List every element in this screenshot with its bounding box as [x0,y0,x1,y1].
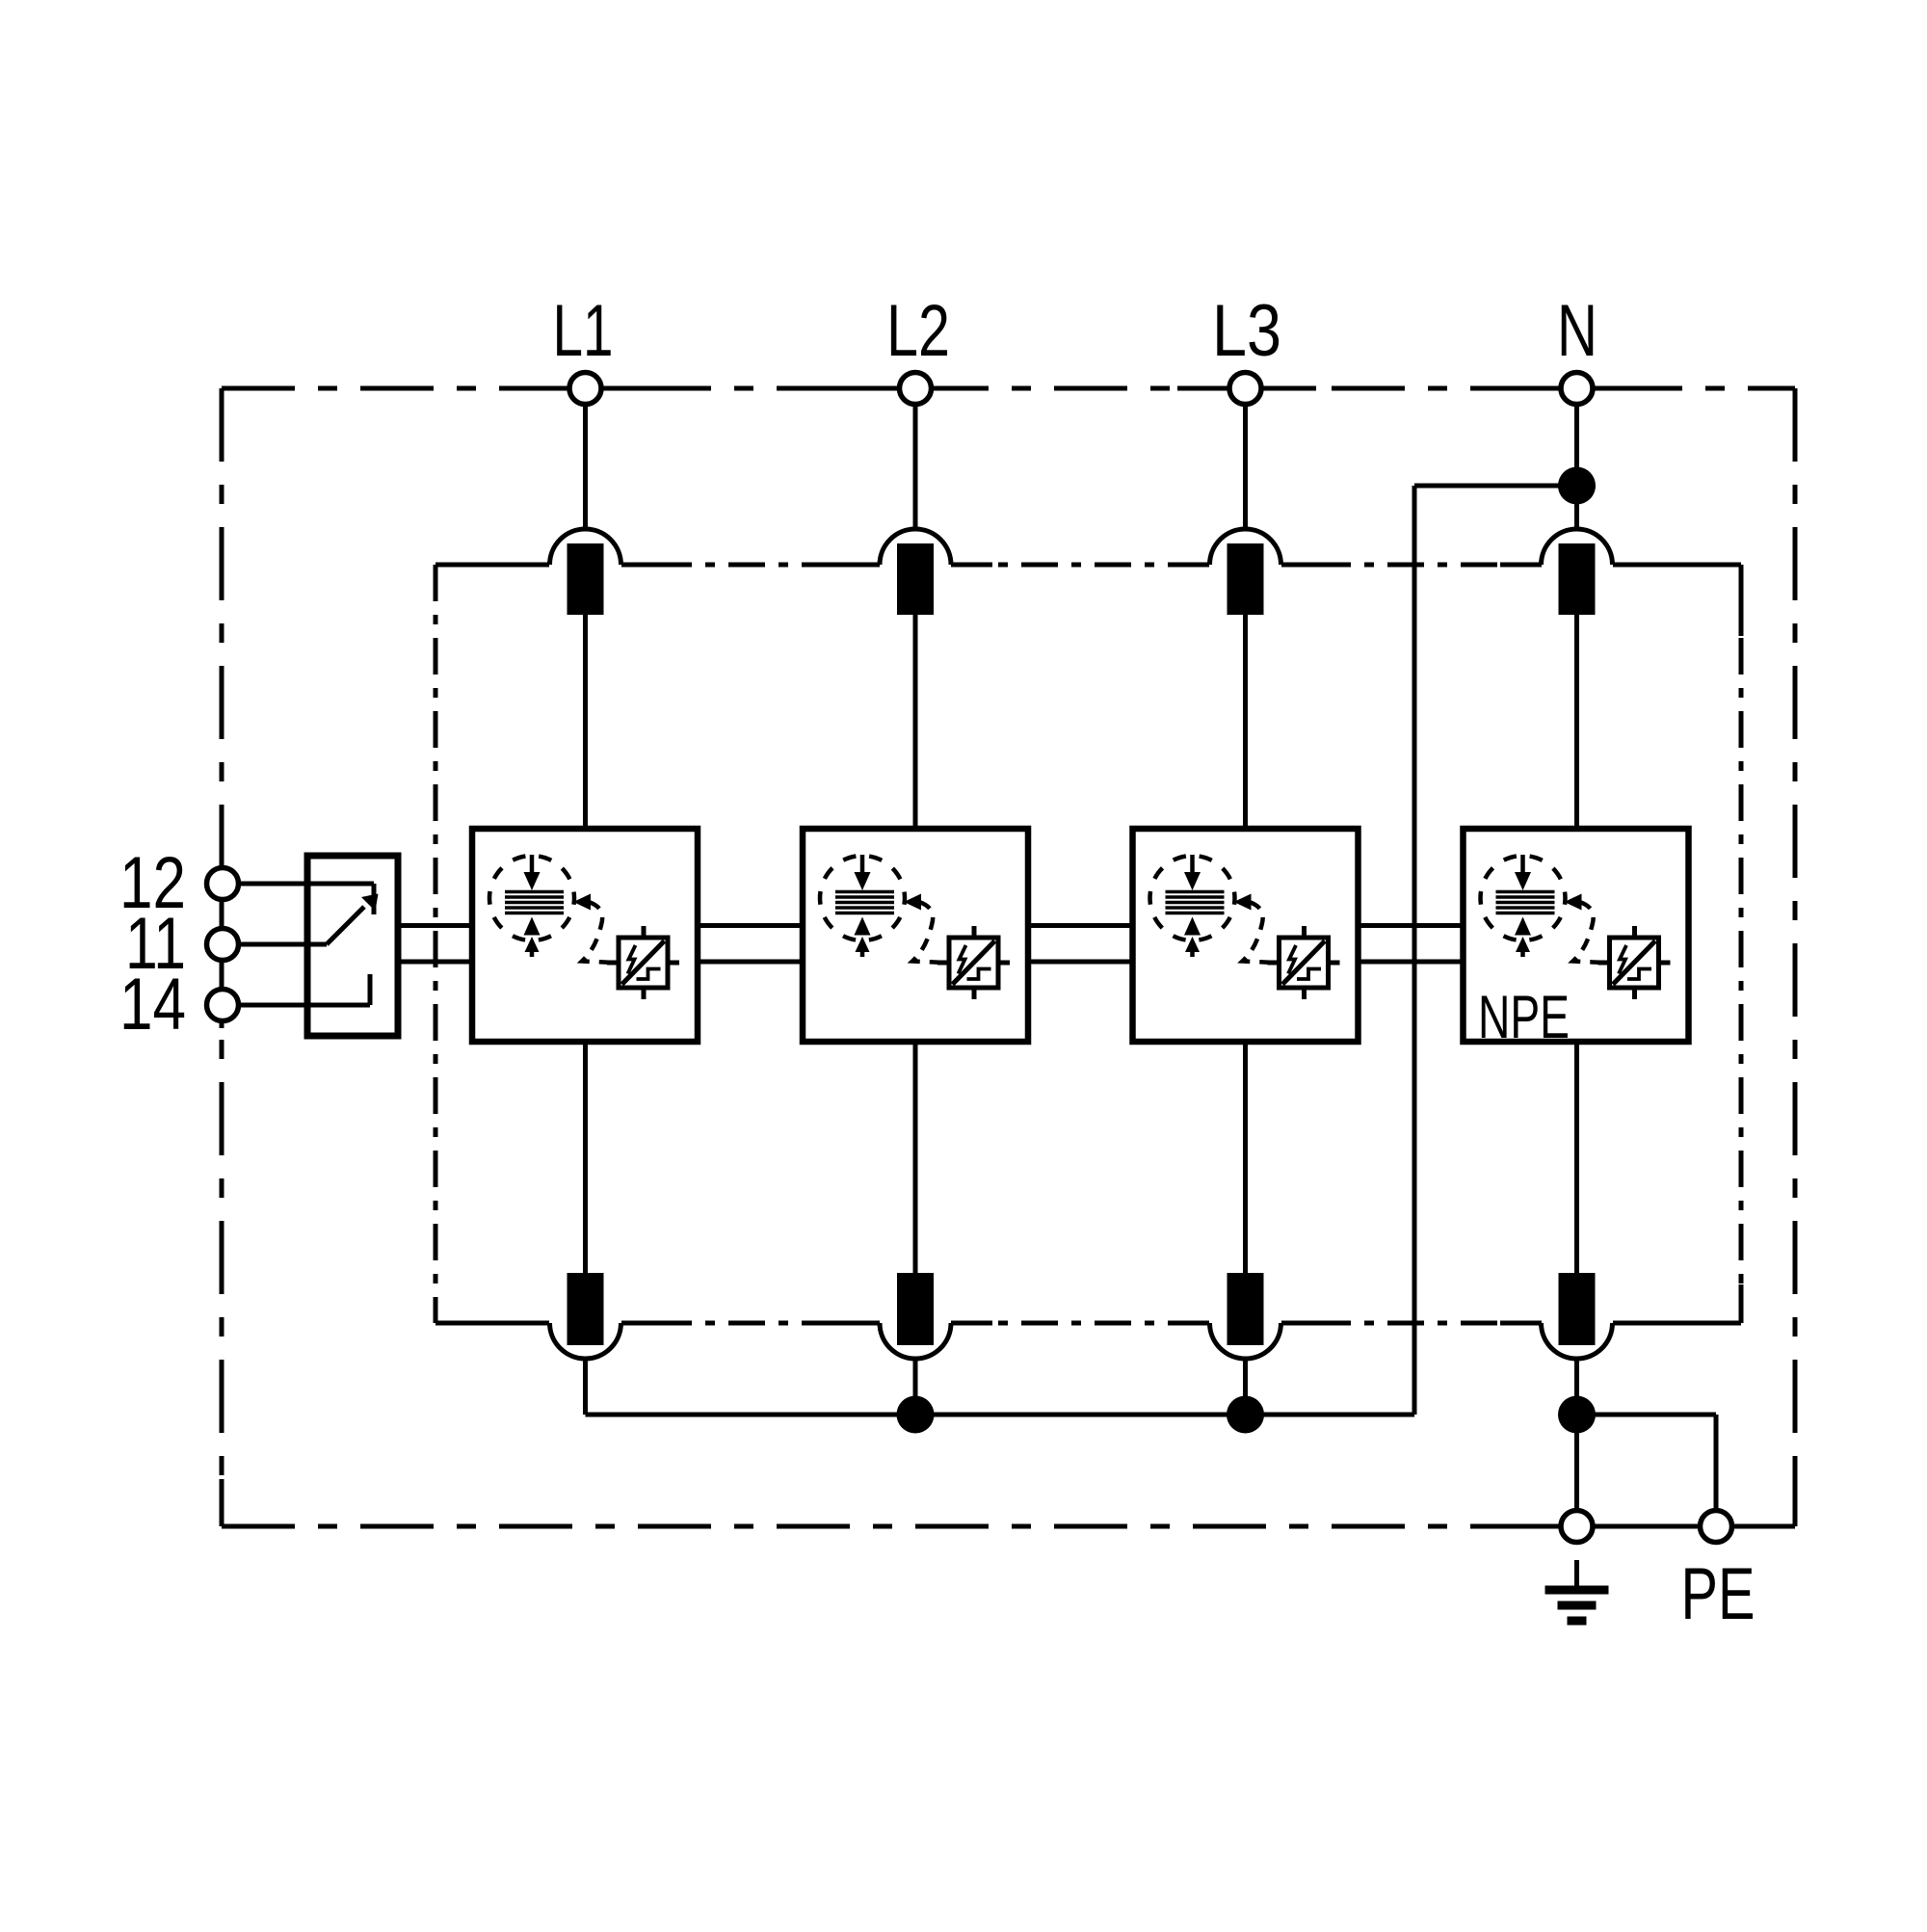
disconnect plug contact L2 top [880,529,951,615]
junction node L3 on PE bus [1227,1396,1264,1434]
wire N module F4 to bottom plug [1574,1043,1579,1273]
terminal L3 [1229,373,1261,405]
disconnect plug contact N top [1542,529,1613,615]
disconnect plug contact L3 top [1210,529,1281,615]
wire L2 plug to module F2 [913,615,918,829]
wire terminal 12 stub [239,882,307,887]
switch contact 14 (NO) [307,974,370,1005]
FM signalling bus upper line [398,923,1462,928]
wire L3 bottom plug to PE bus [1243,1360,1248,1415]
wire N-PE bridge horizontal [1577,1413,1717,1417]
terminal PE ground side [1561,1511,1593,1543]
wire terminal 11 stub [239,942,307,947]
terminal L1 [569,373,601,405]
disconnect plug contact L2 bottom [880,1273,951,1359]
FM signalling bus lower line [398,960,1462,965]
wire L2 module F2 to bottom plug [913,1042,918,1273]
wire N-PE bridge drop to PE terminal [1714,1415,1719,1510]
enclosure outer border (dash-dot) [222,388,1795,1526]
wire L1 module F1 to bottom plug [583,1042,588,1273]
switch common 11 lever [307,894,379,945]
switch contact 12 (NC) [307,884,374,914]
SPD module F2 (L2) [803,829,1028,1042]
junction node N on PE bus [1558,1396,1596,1434]
terminal 14 [207,990,239,1021]
wire PE bottom bus [586,1413,1415,1417]
remote signalling changeover switch K1 box [307,856,398,1036]
terminal N [1561,373,1593,405]
wire N plug to module F4 [1574,615,1579,828]
ground symbol [1545,1560,1609,1621]
svg-text:N: N [1557,290,1597,372]
svg-text:14: 14 [119,964,186,1045]
SPD module F4 (N-PE) [1464,829,1689,1042]
wire L1 terminal drop [583,405,588,529]
solid border segments (outer border near terminals and corners) [222,388,1795,1526]
wire L3 plug to module F3 [1243,615,1248,829]
wire L3 module F3 to bottom plug [1243,1042,1248,1273]
inner module-group border (dash-dot) [436,565,1741,1323]
wire L2 bottom plug to PE bus [913,1360,918,1415]
terminal L2 [900,373,932,405]
wire L2 terminal drop [913,405,918,529]
wire N branch vertical run [1412,486,1417,1415]
wire L1 bottom plug to PE bus [583,1360,588,1415]
wire N node branch left [1414,484,1577,489]
svg-text:PE: PE [1681,1553,1755,1635]
wire terminal 14 stub [239,1003,307,1008]
disconnect plug contact L1 bottom [550,1273,621,1359]
white masks under plug-contact humps [549,558,1614,1330]
solid border segments (inner border near humps and corners) [436,565,1741,1323]
SPD module F1 (L1) [472,829,698,1042]
svg-text:L2: L2 [886,290,950,372]
junction node N top [1558,467,1596,505]
disconnect plug contact L1 top [550,529,621,615]
terminal 12 [207,868,239,900]
terminal PE [1701,1511,1732,1543]
junction node L2 on PE bus [897,1396,935,1434]
wire L1 plug to module F1 [583,615,588,829]
wire N bottom plug to PE node [1574,1360,1579,1510]
svg-text:L1: L1 [553,290,614,372]
SPD module F3 (L3) [1133,829,1359,1042]
disconnect plug contact L3 bottom [1210,1273,1281,1359]
terminal 11 [207,929,239,961]
disconnect plug contact N bottom [1542,1273,1613,1359]
wire N terminal drop through node [1574,405,1579,529]
svg-text:L3: L3 [1212,290,1281,372]
wire L3 terminal drop [1243,405,1248,529]
svg-text:NPE: NPE [1478,984,1570,1051]
